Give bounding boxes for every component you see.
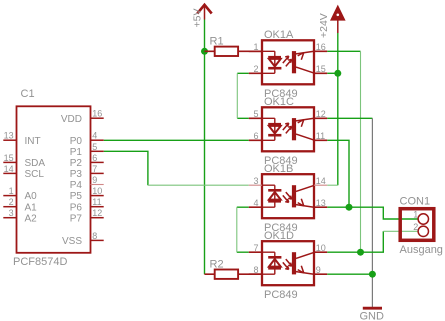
wire +24V rail	[337, 33, 339, 185]
junction +24V/OK1A.15	[334, 70, 341, 77]
svg-text:OK1B: OK1B	[264, 163, 293, 175]
junction GND/OK1D.9	[369, 271, 376, 278]
svg-text:13: 13	[4, 131, 14, 141]
wire OK1C pin12 to GND	[327, 117, 372, 119]
svg-text:P0: P0	[70, 136, 83, 147]
optocoupler OK1A PC849	[262, 40, 314, 84]
IC pin 1 A0	[3, 195, 16, 197]
wire OK1B pin13 to CON1 pin1	[327, 207, 418, 219]
svg-text:2: 2	[413, 222, 418, 232]
IC pin 9 P4	[91, 184, 104, 186]
svg-text:+5V: +5V	[192, 9, 204, 28]
svg-text:P2: P2	[70, 158, 83, 169]
IC pin 13 INT	[3, 139, 16, 141]
resistor R2	[205, 270, 263, 279]
wire +5V rail	[204, 20, 206, 275]
svg-text:P1: P1	[70, 147, 83, 158]
svg-text:11: 11	[92, 197, 101, 207]
svg-text:PCF8574D: PCF8574D	[13, 256, 67, 268]
svg-text:5: 5	[253, 109, 258, 119]
supply +24V arrow	[332, 7, 344, 33]
svg-text:A1: A1	[25, 202, 38, 213]
svg-text:4: 4	[253, 198, 258, 208]
svg-text:9: 9	[316, 265, 321, 275]
svg-text:CON1: CON1	[400, 196, 431, 208]
svg-text:INT: INT	[25, 136, 41, 147]
svg-text:Ausgang: Ausgang	[400, 244, 443, 256]
svg-text:9: 9	[92, 175, 97, 185]
IC pin 15 SDA	[3, 161, 16, 163]
IC pin 11 P6	[91, 206, 104, 208]
junction CON1.1 net	[346, 204, 353, 211]
svg-text:10: 10	[316, 243, 326, 253]
svg-text:VDD: VDD	[61, 114, 82, 125]
optocoupler OK1C PC849	[262, 107, 314, 151]
CON1 pin 2 circle	[418, 226, 428, 236]
optocoupler OK1B PC849	[262, 174, 314, 218]
connector CON1 box	[400, 209, 434, 241]
svg-text:14: 14	[4, 164, 14, 174]
svg-text:8: 8	[253, 265, 258, 275]
svg-text:P6: P6	[70, 202, 83, 213]
svg-text:16: 16	[316, 42, 326, 52]
wire OK1D pin9 to GND	[327, 273, 372, 275]
svg-text:R1: R1	[210, 36, 224, 48]
svg-text:PC849: PC849	[264, 289, 298, 301]
svg-text:P7: P7	[70, 213, 83, 224]
svg-text:OK1C: OK1C	[264, 96, 294, 108]
svg-text:7: 7	[253, 243, 258, 253]
svg-text:1: 1	[9, 186, 14, 196]
IC pin 10 P5	[91, 195, 104, 197]
ground symbol	[363, 307, 382, 310]
svg-text:7: 7	[92, 164, 97, 174]
IC pin 5 P1	[91, 150, 104, 152]
svg-text:15: 15	[316, 64, 326, 74]
IC pin 2 A1	[3, 206, 16, 208]
svg-text:SDA: SDA	[25, 158, 46, 169]
wire OK1B pin14 to +24V	[327, 184, 338, 186]
svg-text:2: 2	[253, 64, 258, 74]
wire OK1B pin4 to OK1D pin7	[237, 207, 249, 252]
wire OK1D pin10 to CON1 pin2	[327, 231, 383, 252]
svg-text:A2: A2	[25, 213, 38, 224]
IC pin 7 P3	[91, 172, 104, 174]
wire OK1C pin11 to node	[327, 140, 349, 207]
IC pin 3 A2	[3, 217, 16, 219]
svg-text:12: 12	[316, 109, 326, 119]
svg-text:10: 10	[92, 186, 102, 196]
svg-text:A0: A0	[25, 191, 38, 202]
svg-text:15: 15	[4, 153, 14, 163]
svg-text:12: 12	[92, 208, 102, 218]
IC pin 12 P7	[91, 217, 104, 219]
svg-text:C1: C1	[21, 88, 35, 100]
svg-text:1: 1	[253, 42, 258, 52]
wire P0 to OK1C pin6	[104, 139, 249, 141]
svg-text:P3: P3	[70, 169, 83, 180]
IC pin 14 SCL	[3, 172, 16, 174]
wire P1 to OK1B pin3	[104, 151, 148, 185]
svg-text:P5: P5	[70, 191, 83, 202]
svg-text:2: 2	[9, 197, 14, 207]
svg-text:P4: P4	[70, 180, 83, 191]
svg-text:R2: R2	[210, 259, 224, 271]
svg-text:1: 1	[413, 210, 418, 220]
svg-text:6: 6	[253, 131, 258, 141]
svg-text:8: 8	[92, 231, 97, 241]
svg-text:VSS: VSS	[62, 236, 82, 247]
CON1 pin 1 circle	[418, 214, 428, 224]
svg-text:5: 5	[92, 142, 97, 152]
junction +5V/R1	[201, 48, 208, 55]
svg-text:+24V: +24V	[318, 13, 330, 38]
IC pin 6 P2	[91, 161, 104, 163]
IC pin 16 VDD	[91, 117, 104, 119]
junction CON1.2 net	[357, 249, 364, 256]
supply +5V arrow	[197, 5, 211, 20]
svg-text:11: 11	[316, 131, 325, 141]
svg-text:16: 16	[92, 109, 102, 119]
svg-text:GND: GND	[360, 311, 385, 321]
svg-text:OK1D: OK1D	[264, 230, 294, 242]
svg-text:4: 4	[92, 131, 97, 141]
IC pin 8 VSS	[91, 239, 104, 241]
svg-text:SCL: SCL	[25, 169, 45, 180]
wire GND vertical	[371, 118, 373, 307]
svg-text:6: 6	[92, 153, 97, 163]
svg-text:OK1A: OK1A	[264, 29, 294, 41]
svg-text:13: 13	[316, 198, 326, 208]
svg-text:14: 14	[316, 176, 326, 186]
svg-text:3: 3	[9, 208, 14, 218]
resistor R1	[205, 47, 263, 56]
wire OK1A pin16 to CON1 pin2 net	[327, 50, 360, 52]
IC pin 4 P0	[91, 139, 104, 141]
optocoupler OK1D PC849	[262, 241, 314, 285]
IC C1 PCF8574D box	[17, 106, 91, 253]
wire OK1A pin2 to OK1C pin5	[237, 73, 249, 118]
wire OK1A pin15 to +24V	[327, 72, 338, 74]
svg-text:3: 3	[253, 176, 258, 186]
